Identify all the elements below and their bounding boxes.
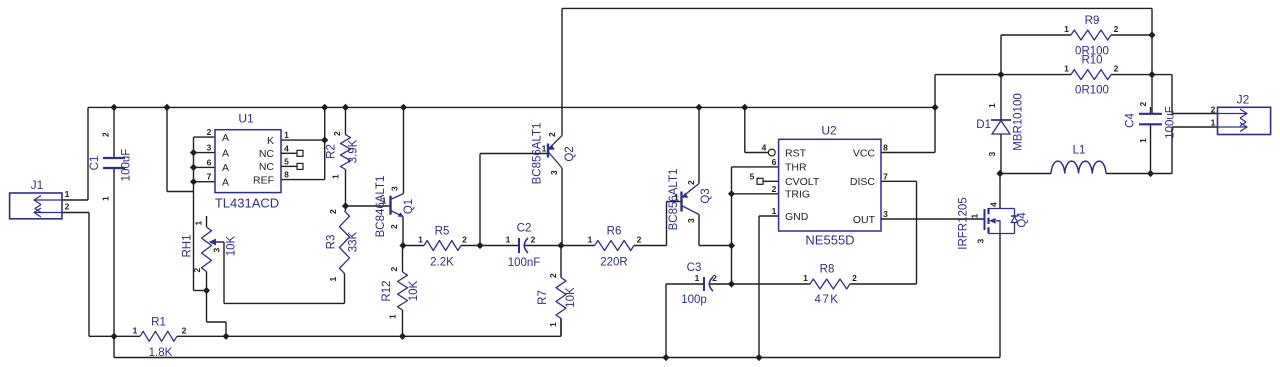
wire R10 left lead bbox=[1001, 74, 1071, 76]
C4 pin 1 number bbox=[1138, 138, 1148, 143]
C2 pin 2 number bbox=[531, 235, 536, 245]
Q4 pin 4 number bbox=[989, 202, 999, 207]
wire R5 to C2 bbox=[461, 245, 519, 247]
R8 pin 2 number bbox=[852, 273, 857, 283]
Q1 pin 1 number bbox=[382, 196, 387, 206]
svg-text:J1: J1 bbox=[31, 178, 44, 192]
svg-text:R7: R7 bbox=[537, 290, 549, 305]
svg-text:R12: R12 bbox=[381, 280, 393, 301]
svg-text:1: 1 bbox=[548, 322, 558, 327]
svg-text:CVOLT: CVOLT bbox=[785, 176, 820, 188]
R5 pin 2 number bbox=[462, 235, 467, 245]
wire Q2 collector drop bbox=[561, 168, 563, 246]
wire R6 to Q3 base riser bbox=[634, 202, 682, 246]
junction dot C1 top on rail bbox=[110, 104, 117, 111]
wire Q4 drain lead bbox=[999, 174, 1001, 209]
U1 pin 7 number bbox=[207, 172, 212, 182]
R2 pin 2 number bbox=[332, 131, 342, 136]
R9 pin 1 number bbox=[1064, 24, 1069, 34]
svg-text:RST: RST bbox=[785, 147, 807, 159]
R10 pin 1 number bbox=[1064, 64, 1069, 74]
svg-text:4: 4 bbox=[284, 144, 289, 154]
wire R7 top stub bbox=[560, 246, 562, 278]
wire D1 bottom lead bbox=[1000, 134, 1002, 174]
svg-text:R1: R1 bbox=[151, 317, 166, 329]
Q3 pin 1 number bbox=[674, 193, 679, 203]
wire L1 to output minus node bbox=[1106, 173, 1172, 175]
junction dot R2 R3 base node bbox=[342, 202, 349, 209]
U1 pin5 no-connect bbox=[281, 163, 303, 169]
svg-text:2: 2 bbox=[1211, 105, 1216, 115]
wire R3 top stub bbox=[345, 206, 347, 211]
U2 RST bubble bbox=[768, 149, 775, 156]
diode D1 bbox=[976, 93, 1024, 151]
wire R2 bottom stub bbox=[345, 169, 347, 206]
svg-text:NC: NC bbox=[259, 161, 275, 173]
capacitor C1 bbox=[89, 149, 133, 182]
wire THR TRIG column bbox=[731, 167, 733, 284]
transistor Q1 bbox=[375, 176, 415, 238]
junction dot K riser top bbox=[321, 104, 328, 111]
Q2 pin 2 number bbox=[547, 132, 557, 137]
svg-text:2: 2 bbox=[65, 202, 70, 212]
svg-text:2: 2 bbox=[712, 273, 717, 283]
svg-text:33K: 33K bbox=[348, 231, 360, 252]
svg-text:1: 1 bbox=[542, 144, 547, 154]
wire J1 pin2 lead, drop and bottom segment to C1 node bbox=[62, 213, 114, 337]
svg-text:1: 1 bbox=[506, 235, 511, 245]
wire J2 pin1 riser and lead bbox=[1172, 127, 1218, 174]
R9 pin 2 number bbox=[1114, 24, 1119, 34]
U1 pin 4 number bbox=[284, 144, 289, 154]
svg-text:2: 2 bbox=[852, 273, 857, 283]
R5 pin 1 number bbox=[418, 235, 423, 245]
svg-text:NE555D: NE555D bbox=[805, 233, 854, 248]
svg-text:2: 2 bbox=[531, 235, 536, 245]
U2 pin 5 number bbox=[750, 171, 755, 181]
wire R3 bottom stub and return to wiper bbox=[224, 242, 345, 303]
junction dot U1 pin7 bbox=[190, 178, 197, 185]
svg-text:TRIG: TRIG bbox=[785, 189, 810, 201]
wire U1 pin6 lead bbox=[194, 166, 216, 168]
wire Q1 emitter to R5 bbox=[403, 245, 424, 247]
transistor Q4 MOSFET bbox=[958, 197, 1029, 249]
D1 pin 1 number bbox=[987, 103, 997, 108]
svg-text:REF: REF bbox=[253, 174, 274, 186]
wire D1 top riser bbox=[1000, 35, 1002, 120]
junction dot anode net on R1 rail bbox=[222, 333, 229, 340]
U2 pin 2 number bbox=[772, 184, 777, 194]
svg-text:R6: R6 bbox=[607, 226, 622, 238]
junction dot R10 right bbox=[1148, 71, 1155, 78]
svg-text:2: 2 bbox=[772, 184, 777, 194]
transistor Q3 bbox=[668, 169, 712, 231]
wire R7 bottom stub bbox=[560, 318, 562, 336]
svg-text:1: 1 bbox=[418, 235, 423, 245]
op-amp U1 TL431ACD body bbox=[215, 112, 281, 211]
svg-text:3: 3 bbox=[207, 143, 212, 153]
J1 pin 2 number bbox=[65, 202, 70, 212]
wire RH1 bottom jog to R1 rail bbox=[207, 291, 227, 337]
D1 pin 3 number bbox=[987, 151, 997, 156]
svg-text:2: 2 bbox=[637, 235, 642, 245]
U1 pin4 no-connect bbox=[281, 150, 303, 156]
svg-text:3.9K: 3.9K bbox=[348, 139, 360, 163]
U1 pin 1 number bbox=[284, 130, 289, 140]
junction dot R5 C2 node bbox=[476, 242, 483, 249]
wire U2 CVOLT lead bbox=[763, 180, 779, 182]
wire U2 VCC lead and riser bbox=[881, 75, 1001, 153]
svg-text:7: 7 bbox=[883, 171, 888, 181]
svg-text:2: 2 bbox=[182, 326, 187, 336]
junction dot R9 right bbox=[1148, 31, 1155, 38]
svg-text:2: 2 bbox=[332, 131, 342, 136]
svg-text:0R100: 0R100 bbox=[1075, 85, 1109, 97]
svg-text:1: 1 bbox=[101, 196, 111, 201]
wire top output rail bbox=[562, 7, 1152, 9]
svg-text:2: 2 bbox=[328, 209, 338, 214]
R2 pin 1 number bbox=[331, 174, 341, 179]
U1 pin 2 number bbox=[207, 127, 212, 137]
Q2 pin 3 number bbox=[549, 170, 559, 175]
svg-text:Q3: Q3 bbox=[700, 188, 712, 203]
svg-text:100p: 100p bbox=[681, 294, 707, 306]
svg-text:C2: C2 bbox=[517, 223, 532, 235]
wire U2 DISC lead and drop to R8 bbox=[850, 181, 917, 284]
svg-text:2: 2 bbox=[389, 224, 399, 229]
svg-text:7: 7 bbox=[207, 172, 212, 182]
wire C1 column bbox=[113, 107, 115, 336]
C4 pin 2 number bbox=[1138, 101, 1148, 106]
R10 pin 2 number bbox=[1114, 64, 1119, 74]
wire C4 bottom stub bbox=[1150, 124, 1152, 173]
svg-text:100uF: 100uF bbox=[121, 149, 133, 182]
svg-text:A: A bbox=[222, 176, 229, 188]
R1 pin 2 number bbox=[182, 326, 187, 336]
svg-text:K: K bbox=[267, 135, 274, 147]
svg-text:1: 1 bbox=[382, 196, 387, 206]
wire Q1 emitter drop bbox=[402, 217, 404, 246]
resistor R12 bbox=[381, 272, 420, 336]
svg-text:1: 1 bbox=[284, 130, 289, 140]
resistor R8 bbox=[810, 264, 850, 307]
U1 pin 8 number bbox=[284, 170, 289, 180]
svg-text:10K: 10K bbox=[565, 287, 577, 308]
resistor R1 bbox=[140, 317, 177, 360]
wire C2 to R6 bbox=[524, 245, 595, 247]
svg-text:J2: J2 bbox=[1237, 93, 1250, 107]
svg-text:R3: R3 bbox=[326, 235, 338, 250]
svg-text:8: 8 bbox=[883, 143, 888, 153]
junction dot switch node bbox=[996, 170, 1003, 177]
svg-text:5: 5 bbox=[750, 171, 755, 181]
junction dot R12 bottom bbox=[399, 333, 406, 340]
junction dot C1 bottom node bbox=[110, 333, 117, 340]
wire U1 K pin lead bbox=[281, 139, 325, 141]
junction dot Q3 emitter on rail bbox=[695, 104, 702, 111]
svg-text:4: 4 bbox=[989, 202, 999, 207]
svg-text:100nF: 100nF bbox=[508, 257, 541, 269]
wire Q3 emitter riser bbox=[698, 107, 700, 183]
resistor R5 bbox=[424, 226, 461, 269]
R12 pin 1 number bbox=[388, 314, 398, 319]
svg-text:R5: R5 bbox=[435, 226, 450, 238]
svg-text:2: 2 bbox=[686, 180, 696, 185]
Q3 pin 3 number bbox=[686, 218, 696, 223]
junction dot C3 ground bbox=[662, 354, 669, 361]
svg-text:R8: R8 bbox=[820, 264, 835, 276]
C1 pin 1 number bbox=[101, 196, 111, 201]
junction dot anode riser on rail bbox=[163, 104, 170, 111]
RH1 pin 3 number bbox=[212, 247, 222, 252]
svg-text:8: 8 bbox=[284, 170, 289, 180]
svg-text:1: 1 bbox=[772, 206, 777, 216]
svg-text:100uF: 100uF bbox=[1165, 106, 1177, 139]
svg-text:1: 1 bbox=[328, 276, 338, 281]
junction dot U1 pin3 bbox=[190, 149, 197, 156]
svg-text:4: 4 bbox=[762, 143, 767, 153]
svg-text:1: 1 bbox=[194, 220, 204, 225]
resistor R3 bbox=[326, 211, 360, 274]
wire C4 top stub bbox=[1151, 106, 1153, 114]
svg-text:1: 1 bbox=[674, 193, 679, 203]
wire R10 right lead bbox=[1111, 74, 1152, 76]
wire anode net horizontal at RH1 bottom bbox=[194, 290, 207, 292]
svg-text:D1: D1 bbox=[976, 119, 991, 131]
C3 pin 2 number bbox=[712, 273, 717, 283]
svg-text:VCC: VCC bbox=[853, 147, 876, 159]
wire C3 left lead and drop bbox=[666, 284, 704, 358]
wire Q2 emitter riser bbox=[561, 8, 563, 135]
svg-text:1: 1 bbox=[987, 103, 997, 108]
wire switch node to L1 bbox=[1000, 173, 1051, 175]
svg-text:MBR10100: MBR10100 bbox=[1013, 93, 1025, 151]
junction dot K REF node bbox=[321, 137, 328, 144]
junction dot D1 R10 VCC node bbox=[997, 71, 1004, 78]
junction dot Q1 collector on rail bbox=[400, 104, 407, 111]
wire Q1 collector riser bbox=[403, 107, 405, 193]
svg-text:1: 1 bbox=[1138, 138, 1148, 143]
wire Q3 collector drop bbox=[699, 215, 732, 246]
U2 pin 1 number bbox=[772, 206, 777, 216]
U2 pin 3 number bbox=[883, 209, 888, 219]
svg-text:1: 1 bbox=[133, 326, 138, 336]
svg-text:1: 1 bbox=[331, 174, 341, 179]
svg-text:1: 1 bbox=[1064, 24, 1069, 34]
svg-text:1: 1 bbox=[970, 213, 980, 218]
timer U2 NE555D body bbox=[779, 124, 881, 248]
wire U1 pin7 lead bbox=[194, 181, 216, 183]
svg-text:THR: THR bbox=[785, 162, 807, 174]
svg-text:1: 1 bbox=[588, 235, 593, 245]
svg-text:6: 6 bbox=[207, 157, 212, 167]
svg-text:1: 1 bbox=[1064, 64, 1069, 74]
wire R9 right lead bbox=[1111, 34, 1152, 36]
svg-text:2: 2 bbox=[1114, 24, 1119, 34]
Q3 pin 2 number bbox=[686, 180, 696, 185]
wire Q2 base riser bbox=[480, 154, 548, 246]
wire top positive rail from J1 pin1 to VCC riser bbox=[88, 106, 935, 108]
inductor L1 bbox=[1051, 145, 1106, 174]
svg-text:2: 2 bbox=[389, 266, 399, 271]
U2 pin 4 number bbox=[762, 143, 767, 153]
wire K/REF riser bbox=[324, 107, 326, 179]
svg-text:Q1: Q1 bbox=[403, 199, 415, 214]
svg-text:2: 2 bbox=[1114, 64, 1119, 74]
junction dot U1 pin6 bbox=[190, 164, 197, 171]
wire base node to Q1 bbox=[346, 205, 391, 207]
U1 pin 3 number bbox=[207, 143, 212, 153]
svg-text:2: 2 bbox=[548, 273, 558, 278]
J2 pin 1 number bbox=[1211, 118, 1216, 128]
svg-text:A: A bbox=[222, 147, 229, 159]
svg-text:47K: 47K bbox=[815, 294, 840, 306]
J1 pin 1 number bbox=[65, 189, 70, 199]
svg-text:3: 3 bbox=[883, 209, 888, 219]
wire R1 rail segment bbox=[114, 335, 561, 337]
Q2 pin 1 number bbox=[542, 144, 547, 154]
junction dot R2 top bbox=[342, 104, 349, 111]
svg-text:2: 2 bbox=[462, 235, 467, 245]
svg-text:3: 3 bbox=[987, 151, 997, 156]
R12 pin 2 number bbox=[389, 266, 399, 271]
capacitor C3 bbox=[681, 262, 713, 306]
svg-text:GND: GND bbox=[785, 211, 809, 223]
svg-text:R10: R10 bbox=[1081, 55, 1102, 67]
resistor R6 bbox=[595, 226, 634, 269]
svg-text:U1: U1 bbox=[238, 112, 254, 126]
wire anode net riser and link to U1 pins bbox=[167, 107, 194, 290]
svg-text:6: 6 bbox=[772, 157, 777, 167]
resistor R10 bbox=[1071, 55, 1111, 97]
U2 CVOLT no-connect bbox=[757, 178, 763, 184]
U1 pin 5 number bbox=[284, 157, 289, 167]
capacitor C4 bbox=[1125, 106, 1177, 139]
svg-text:Q4: Q4 bbox=[1017, 212, 1029, 228]
wire Q4 source drop bbox=[999, 234, 1001, 358]
Q4 pin 1 number bbox=[970, 213, 980, 218]
capacitor C2 bbox=[508, 223, 541, 270]
C1 pin 2 number bbox=[101, 132, 111, 137]
wire R12 top stub bbox=[402, 246, 404, 273]
resistor R9 bbox=[1071, 15, 1111, 58]
junction dot C2 R6 R7 node bbox=[557, 242, 564, 249]
svg-text:R2: R2 bbox=[326, 144, 338, 159]
R1 pin 1 number bbox=[133, 326, 138, 336]
wire RH1 wiper lead bbox=[215, 241, 224, 243]
wire U2 GND lead and drop bbox=[759, 216, 779, 358]
svg-text:3: 3 bbox=[390, 186, 400, 191]
svg-text:3: 3 bbox=[212, 247, 222, 252]
R7 pin 1 number bbox=[548, 322, 558, 327]
svg-text:3: 3 bbox=[686, 218, 696, 223]
svg-text:3: 3 bbox=[976, 238, 986, 243]
connector J1 bbox=[10, 178, 62, 219]
svg-text:1: 1 bbox=[65, 189, 70, 199]
svg-text:2.2K: 2.2K bbox=[430, 257, 454, 269]
wire C3 right to R8 bbox=[709, 283, 810, 285]
trimmer RH1 bbox=[182, 216, 238, 291]
svg-text:1: 1 bbox=[803, 273, 808, 283]
J2 pin 2 number bbox=[1211, 105, 1216, 115]
wire ground rail bbox=[114, 357, 1000, 359]
wire output node to J2 pin2 bbox=[1152, 75, 1218, 114]
wire J1 pin1 lead and riser bbox=[62, 107, 88, 200]
Q1 pin 3 number bbox=[390, 186, 400, 191]
U2 pin 8 number bbox=[883, 143, 888, 153]
svg-text:1: 1 bbox=[695, 273, 700, 283]
wire U1 pin2 lead bbox=[194, 136, 216, 138]
resistor R7 bbox=[537, 278, 577, 319]
svg-text:2: 2 bbox=[207, 127, 212, 137]
svg-text:OUT: OUT bbox=[853, 214, 876, 226]
svg-text:10K: 10K bbox=[408, 280, 420, 301]
svg-text:L1: L1 bbox=[1073, 145, 1086, 157]
U2 pin 6 number bbox=[772, 157, 777, 167]
svg-text:10K: 10K bbox=[226, 235, 238, 256]
wire output rail right drop bbox=[1151, 8, 1153, 106]
C2 pin 1 number bbox=[506, 235, 511, 245]
resistor R2 bbox=[326, 135, 360, 170]
wire R7 bottom corner bbox=[560, 318, 562, 336]
U2 pin 7 number bbox=[883, 171, 888, 181]
R6 pin 2 number bbox=[637, 235, 642, 245]
Q4 pin 3 number bbox=[976, 238, 986, 243]
wire U2 RST riser and lead bbox=[745, 107, 768, 152]
svg-text:BC846ALT1: BC846ALT1 bbox=[375, 176, 387, 238]
svg-text:1.8K: 1.8K bbox=[149, 347, 173, 359]
connector J2 bbox=[1218, 93, 1271, 135]
RH1 pin 1 number bbox=[194, 220, 204, 225]
svg-text:U2: U2 bbox=[821, 124, 837, 138]
svg-text:TL431ACD: TL431ACD bbox=[215, 196, 279, 211]
wire R2 top stub bbox=[345, 107, 347, 134]
junction dot C3 R8 node bbox=[728, 280, 735, 287]
junction dot U2 GND ground bbox=[755, 354, 762, 361]
C3 pin 1 number bbox=[695, 273, 700, 283]
svg-text:NC: NC bbox=[259, 148, 275, 160]
wire U2 TRIG lead bbox=[732, 193, 779, 195]
svg-text:2: 2 bbox=[101, 132, 111, 137]
junction dot RST riser bbox=[741, 104, 748, 111]
svg-text:A: A bbox=[222, 132, 229, 144]
transistor Q2 bbox=[532, 123, 577, 185]
wire link down to ground rail bbox=[113, 336, 115, 357]
svg-text:2: 2 bbox=[1138, 101, 1148, 106]
wire U1 pin3 lead bbox=[194, 152, 216, 154]
svg-text:DISC: DISC bbox=[850, 176, 876, 188]
svg-text:C1: C1 bbox=[89, 156, 101, 171]
Q1 pin 2 number bbox=[389, 224, 399, 229]
svg-text:R9: R9 bbox=[1085, 15, 1100, 27]
R8 pin 1 number bbox=[803, 273, 808, 283]
svg-text:5: 5 bbox=[284, 157, 289, 167]
svg-text:C4: C4 bbox=[1125, 113, 1137, 128]
R3 pin 2 number bbox=[328, 209, 338, 214]
wire U2 OUT lead to Q4 gate bbox=[881, 218, 985, 220]
junction dot VCC riser on rail bbox=[931, 104, 938, 111]
svg-text:IRFR1205: IRFR1205 bbox=[958, 197, 970, 249]
svg-text:2: 2 bbox=[547, 132, 557, 137]
R7 pin 2 number bbox=[548, 273, 558, 278]
wire R9 left lead bbox=[1001, 34, 1071, 36]
svg-text:Q2: Q2 bbox=[564, 146, 576, 161]
wire U1 REF pin lead bbox=[281, 179, 325, 181]
junction dot C4 bottom node bbox=[1147, 170, 1154, 177]
svg-text:A: A bbox=[222, 162, 229, 174]
R3 pin 1 number bbox=[328, 276, 338, 281]
svg-text:2: 2 bbox=[192, 267, 202, 272]
